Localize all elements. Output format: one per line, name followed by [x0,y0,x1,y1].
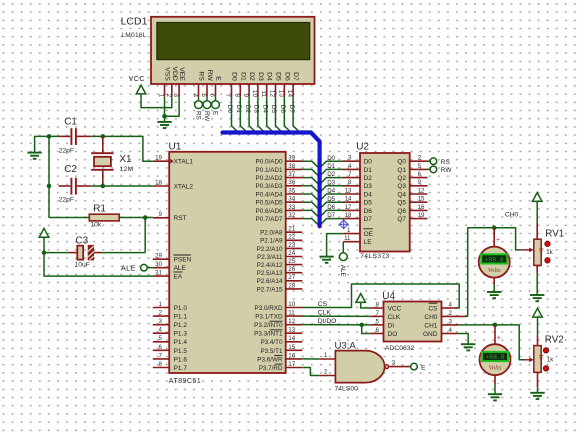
svg-text:5: 5 [418,163,422,170]
voltmeter VM1 - lead [493,278,495,284]
LCD pin stubs [165,84,294,97]
svg-text:11: 11 [288,309,295,316]
svg-text:VDD: VDD [171,66,178,80]
wires P0.0-P0.7 to 74LS373 D0-D7 via bus, with net labels D0-D7 [302,155,342,226]
svg-text:14: 14 [286,90,293,98]
svg-text:11: 11 [260,90,267,97]
svg-text:15: 15 [288,344,295,351]
U4 pin DO (6) [370,333,383,335]
svg-text:RW: RW [206,70,213,82]
svg-text:AT89C51: AT89C51 [169,376,201,385]
svg-text:31: 31 [155,270,162,277]
svg-text:19: 19 [155,155,162,162]
power VCC symbol reset network [39,228,49,237]
svg-text:38: 38 [288,163,295,170]
ground below U4 GND [461,344,475,350]
svg-text:24: 24 [288,250,295,257]
wire net CS from P3.0 to U4 CS [302,284,459,308]
wire C1 right to XTAL1 [91,136,153,161]
voltmeter VM2 - lead [494,375,496,384]
terminal ALE below U2 [339,253,347,261]
U1 pin RST (9) [153,217,169,219]
svg-text:D6: D6 [327,204,335,211]
U2 pin LE (11) [343,241,360,243]
U4 pin CLK (7) [370,315,383,317]
junction voltmeter1 top [492,226,497,231]
wire P3.6 to U3:A input 1 [302,358,319,360]
svg-text:22: 22 [288,234,295,241]
svg-text:2: 2 [159,309,163,316]
svg-text:17: 17 [345,204,352,211]
svg-text:RW: RW [441,167,453,174]
svg-text:7: 7 [159,352,163,359]
svg-text:9: 9 [242,93,249,97]
wire U2 LE to ALE terminal [342,242,344,254]
svg-text:P1.6: P1.6 [174,356,188,363]
LCD data wire labels D0-D7 (rotated) [226,105,295,114]
svg-text:LM016L: LM016L [121,32,146,39]
svg-text:25: 25 [288,258,295,265]
svg-text:3: 3 [449,318,453,325]
svg-text:D2: D2 [248,72,255,81]
svg-text:VCC: VCC [129,76,145,83]
svg-text:7: 7 [348,171,352,178]
svg-text:2: 2 [418,155,422,162]
bus from LCD to 74LS373 [223,133,320,227]
svg-text:LCD1: LCD1 [121,16,148,28]
wire net CLK from P3.1 to U4 CLK [302,315,370,317]
svg-text:LE: LE [364,239,373,246]
svg-text:1k: 1k [538,354,544,360]
svg-text:D1: D1 [327,163,335,170]
svg-text:P0.6/AD6: P0.6/AD6 [256,208,283,215]
terminal RS at U2 Q0 [430,158,437,165]
svg-text:DI/DO: DI/DO [318,318,337,325]
wire ground to C1 left [35,136,59,152]
svg-text:P3.6/WR: P3.6/WR [257,356,283,363]
svg-text:X1: X1 [119,154,132,165]
svg-text:P0.2/AD2: P0.2/AD2 [256,175,283,182]
ground below VM2 [488,394,502,400]
voltmeter VM1 + lead [493,228,495,247]
svg-text:P0.1/AD1: P0.1/AD1 [256,167,283,174]
wire C3 right to RST junction [94,252,102,254]
power VCC symbol at U4 [356,294,366,303]
wires LCD D0-D7 into bus [232,97,301,133]
svg-text:ALE: ALE [339,265,346,277]
latch U2 74LS373 body [360,153,410,252]
svg-text:CS: CS [318,301,328,308]
svg-text:P2.1/A9: P2.1/A9 [260,238,283,245]
RV1 wiper arrow [520,249,530,251]
svg-text:13: 13 [277,90,284,98]
svg-text:1k: 1k [538,248,544,254]
U1 pin PSEN (29) [153,258,169,260]
svg-text:12M: 12M [119,166,133,173]
junction R1/RST/C3 [143,215,148,220]
svg-text:2: 2 [165,93,172,97]
wire C2 left junction [47,184,52,189]
svg-text:16: 16 [418,204,425,211]
terminal RW under LCD [206,97,208,101]
svg-text:C1: C1 [64,117,77,128]
ground below RV2 [530,393,544,399]
svg-text:10k: 10k [90,222,101,229]
svg-text:P0.0/AD0: P0.0/AD0 [256,159,283,166]
wire U2 Q0 to RS terminal [428,160,431,162]
svg-text:P3.2/INT0: P3.2/INT0 [254,322,283,329]
svg-text:14: 14 [288,335,295,342]
svg-text:7: 7 [376,310,380,317]
svg-text:CLK: CLK [388,314,401,321]
wire VCC to RV1 top [536,201,538,223]
svg-text:Q1: Q1 [397,167,406,174]
svg-text:5: 5 [376,318,380,325]
svg-text:P2.5/A13: P2.5/A13 [257,270,283,277]
svg-text:7: 7 [225,93,232,97]
wire VCC to C3 and EA [44,237,153,277]
svg-text:PSEN: PSEN [174,257,192,264]
svg-text:D7: D7 [327,212,335,219]
svg-text:12: 12 [269,90,276,98]
svg-text:6: 6 [376,327,380,334]
ground below U2 OE [319,257,333,263]
terminal E under LCD [215,97,217,101]
svg-text:RS: RS [194,111,201,120]
svg-text:D5: D5 [275,72,282,81]
svg-text:ALE: ALE [174,265,187,272]
svg-text:E: E [211,111,218,115]
RV2 wiper arrow [524,359,531,361]
svg-text:8: 8 [159,361,163,368]
svg-text:15: 15 [418,196,425,203]
U4 pin GND (4) [442,333,458,335]
U1 pin ALE (30) [153,267,169,269]
svg-text:10: 10 [251,90,258,98]
svg-text:D0: D0 [231,72,238,81]
svg-text:1: 1 [347,227,351,234]
svg-text:23: 23 [288,242,295,249]
power VCC symbol above RV1 [532,193,542,202]
svg-text:D2: D2 [327,171,335,178]
microcontroller U1 AT89C51 body [169,152,286,373]
ground below RV1 [530,295,544,301]
svg-text:Q6: Q6 [397,208,406,215]
svg-text:29: 29 [155,253,162,260]
svg-text:P2.6/A14: P2.6/A14 [257,278,283,285]
U3:A output bubble [385,365,389,369]
wire RV2 bottom to ground [537,372,539,387]
RV1 state dot bottom [545,258,550,263]
svg-text:RV1: RV1 [545,228,564,239]
wire CH0 net: U4 CH0 up and across to RV1 wiper [466,315,468,317]
svg-text:D0: D0 [327,155,335,162]
svg-text:RW: RW [203,111,210,121]
svg-text:9: 9 [159,211,163,218]
svg-text:P2.0/A8: P2.0/A8 [260,230,283,237]
wire CH1 net: U4 CH1 across to RV2 wiper [459,325,524,360]
svg-text:Q5: Q5 [397,200,406,207]
U1 pins P1.0-P1.7 (1-8) [153,301,188,372]
RV2 state dot bottom [543,366,548,371]
wire RV1 bottom to ground [536,265,538,273]
wire U4 GND to ground [457,334,468,345]
voltmeter VM2 [480,344,511,375]
RV1 state dot top [545,241,550,246]
svg-text:D4: D4 [364,191,373,198]
svg-text:4: 4 [449,301,453,308]
U1 pin EA (31) [153,275,169,277]
junction X1 top [101,134,106,139]
svg-text:DI: DI [388,322,395,329]
svg-text:CH0: CH0 [424,314,437,321]
svg-text:Q0: Q0 [397,159,406,166]
svg-text:U4: U4 [382,291,395,302]
svg-text:D2: D2 [364,175,373,182]
ground below LCD [157,122,171,128]
svg-text:P2.7/A15: P2.7/A15 [257,286,283,293]
svg-text:11: 11 [344,235,351,242]
svg-text:P1.5: P1.5 [174,348,188,355]
U4 pin CS (1) [442,307,458,309]
svg-text:22pF: 22pF [59,147,74,154]
svg-text:+88.8: +88.8 [485,256,504,263]
wire C2 right to XTAL2 [91,185,153,187]
svg-text:13: 13 [288,327,295,334]
svg-text:1: 1 [159,301,163,308]
svg-text:14: 14 [345,196,352,203]
svg-text:2: 2 [449,310,453,317]
svg-text:3: 3 [348,155,352,162]
svg-text:74LS373: 74LS373 [360,253,389,260]
svg-text:U1: U1 [169,141,182,152]
svg-text:P1.3: P1.3 [174,331,188,338]
svg-text:P1.0: P1.0 [174,305,188,312]
svg-text:D1: D1 [364,167,373,174]
U1 pins P2.0/A8-P2.7/A15 (21-28) [257,226,303,294]
svg-text:ADC0832: ADC0832 [385,345,415,352]
svg-text:1k: 1k [547,356,554,363]
svg-text:Volts: Volts [488,267,501,274]
ground below VM1 [487,292,501,298]
svg-text:P1.1: P1.1 [174,313,188,320]
junction voltmeter2 top [493,323,498,328]
crystal X1 12M [102,136,104,152]
svg-text:9: 9 [418,179,422,186]
svg-text:U3:A: U3:A [335,340,357,351]
svg-text:D7: D7 [364,216,373,223]
adc U4 ADC0832 body [384,302,442,342]
svg-text:D4: D4 [266,72,273,81]
svg-text:E: E [421,364,426,371]
wire RST junction down to C3 [144,218,146,253]
svg-text:6: 6 [209,93,216,97]
U3:A input pin 2 [319,375,335,377]
wire R1 right to RST [119,217,153,219]
nand gate U3:A body 74LS00 [335,351,384,383]
capacitor C3 10uF (polarized) [44,252,69,254]
svg-text:GND: GND [423,331,438,338]
svg-text:ALE: ALE [121,263,136,272]
wire LCD VDD to VCC [141,93,172,107]
U3:A input pin 1 [319,358,335,360]
svg-text:OE: OE [364,231,374,238]
wire LCD VSS to ground [164,97,166,122]
svg-text:VCC: VCC [388,305,402,312]
svg-text:1: 1 [324,352,328,359]
svg-text:17: 17 [288,361,295,368]
svg-text:RS: RS [441,159,451,166]
svg-text:U2: U2 [356,142,369,153]
wire VCC to RV2 top [537,317,539,336]
U4 pin VCC (8) [370,307,383,309]
resistor R1 10k body [89,214,119,221]
svg-text:P0.3/AD3: P0.3/AD3 [256,183,283,190]
svg-text:RST: RST [174,215,187,222]
svg-text:74LS00: 74LS00 [335,386,359,393]
svg-text:P3.4/T0: P3.4/T0 [260,339,283,346]
svg-text:10: 10 [288,301,295,308]
U1 pin XTAL1 (19) [153,160,169,162]
terminal E at U3:A output [411,363,418,370]
svg-text:P0.5/AD5: P0.5/AD5 [256,200,283,207]
wire net DI/DO from P3.2 to U4 DI and DO [302,324,370,326]
U3:A output pin 3 [389,366,410,368]
junction C3 left [42,250,47,255]
svg-text:D1: D1 [239,72,246,81]
capacitor C2 22pF [59,185,71,187]
svg-text:26: 26 [288,266,295,273]
svg-text:Q7: Q7 [397,216,406,223]
svg-text:P2.2/A10: P2.2/A10 [257,246,283,253]
svg-text:+: + [496,237,500,244]
wire vertical GND rail C1/C2/R1 [48,136,50,217]
wire LCD VEE to VSS node [165,97,180,116]
svg-text:6: 6 [159,344,163,351]
U2 pins Q0-Q7 (2,5,6,9,12,15,16,19) [397,155,427,223]
U2 pins D0-D7 (3,4,7,8,13,14,17,18) [343,155,373,223]
svg-text:CLK: CLK [318,310,332,317]
svg-text:P1.7: P1.7 [174,365,188,372]
svg-text:10uF: 10uF [75,262,90,269]
U1 pin XTAL2 (18) [153,185,169,187]
svg-text:37: 37 [288,171,295,178]
svg-text:P3.1/TXD: P3.1/TXD [255,313,283,320]
U1 pins P0.0/AD0-P0.7/AD7 (39-32) [256,155,303,223]
wire VCC arrow to U4 VCC pin [361,302,371,308]
U4 pin DI (5) [370,324,383,326]
svg-text:XTAL1: XTAL1 [174,159,194,166]
svg-text:8: 8 [233,93,240,97]
junction VSS/VEE [162,114,167,119]
junction C1 left [47,134,52,139]
svg-text:33: 33 [288,204,295,211]
svg-text:3: 3 [159,318,163,325]
svg-text:P3.0/RXD: P3.0/RXD [255,305,283,312]
terminal RS under LCD [198,97,200,101]
svg-text:16: 16 [288,352,295,359]
wire U2 Q1 to RW terminal [428,168,431,170]
svg-text:Q2: Q2 [397,175,406,182]
svg-text:D3: D3 [364,183,373,190]
terminal RW at U2 Q1 [430,166,437,173]
voltmeter VM2 + lead [494,325,496,345]
capacitor C1 22pF [59,135,71,137]
svg-text:35: 35 [288,187,295,194]
svg-text:P0.4/AD4: P0.4/AD4 [256,191,283,198]
U2 pin OE (1) [343,233,360,235]
svg-text:D5: D5 [327,196,335,203]
svg-text:4: 4 [348,163,352,170]
RV2 state dot top [543,348,548,353]
svg-text:30: 30 [155,261,162,268]
svg-text:4: 4 [192,93,199,97]
svg-text:12: 12 [288,318,295,325]
svg-text:36: 36 [288,179,295,186]
svg-text:P3.3/INT1: P3.3/INT1 [254,331,283,338]
svg-text:32: 32 [288,212,295,219]
svg-text:D3: D3 [327,179,335,186]
svg-text:+88.8: +88.8 [485,354,504,361]
svg-text:R1: R1 [93,204,106,215]
junction X1 bottom [101,184,106,189]
junction DI/DO [359,323,364,328]
LCD pin numbers 1-14 (rotated) [158,90,294,98]
svg-text:RS: RS [198,71,205,81]
svg-text:4: 4 [159,327,163,334]
svg-text:Q3: Q3 [397,183,406,190]
svg-text:1: 1 [158,93,165,97]
svg-text:D6: D6 [364,208,373,215]
svg-text:28: 28 [288,282,295,289]
svg-text:+: + [497,335,501,342]
svg-text:VEE: VEE [178,67,185,81]
wire P3.7 to U3:A input 2 [302,367,319,375]
svg-text:P1.4: P1.4 [174,339,188,346]
svg-text:C2: C2 [64,164,77,175]
LCD display LCD1 body [151,17,315,84]
svg-text:21: 21 [288,226,295,233]
wire R1 left [49,217,89,219]
potentiometer RV1 body [534,239,541,265]
voltmeter VM1 [479,247,510,278]
svg-text:E: E [215,76,222,81]
svg-text:2: 2 [324,369,328,376]
svg-text:19: 19 [418,212,425,219]
svg-text:CH1: CH1 [424,322,437,329]
svg-text:CH0: CH0 [505,212,519,219]
svg-text:DO: DO [388,331,398,338]
LCD pin name labels (rotated) [164,66,300,81]
svg-text:XTAL2: XTAL2 [174,183,194,190]
svg-text:P0.7/AD7: P0.7/AD7 [256,216,283,223]
svg-text:6: 6 [418,171,422,178]
svg-text:5: 5 [159,335,163,342]
svg-text:Q4: Q4 [397,191,406,198]
svg-text:18: 18 [155,179,162,186]
svg-text:P3.7/RD: P3.7/RD [259,365,283,372]
U4 pin CH0 (2) [442,315,466,317]
svg-text:13: 13 [345,187,352,194]
svg-text:P3.5/T1: P3.5/T1 [260,348,283,355]
svg-text:CS: CS [428,305,438,312]
svg-text:Volts: Volts [489,364,502,371]
svg-text:18: 18 [345,212,352,219]
ground top-left [27,153,41,159]
svg-text:VSS: VSS [164,67,171,81]
svg-text:D7: D7 [292,72,299,81]
svg-text:P2.3/A11: P2.3/A11 [257,254,283,261]
